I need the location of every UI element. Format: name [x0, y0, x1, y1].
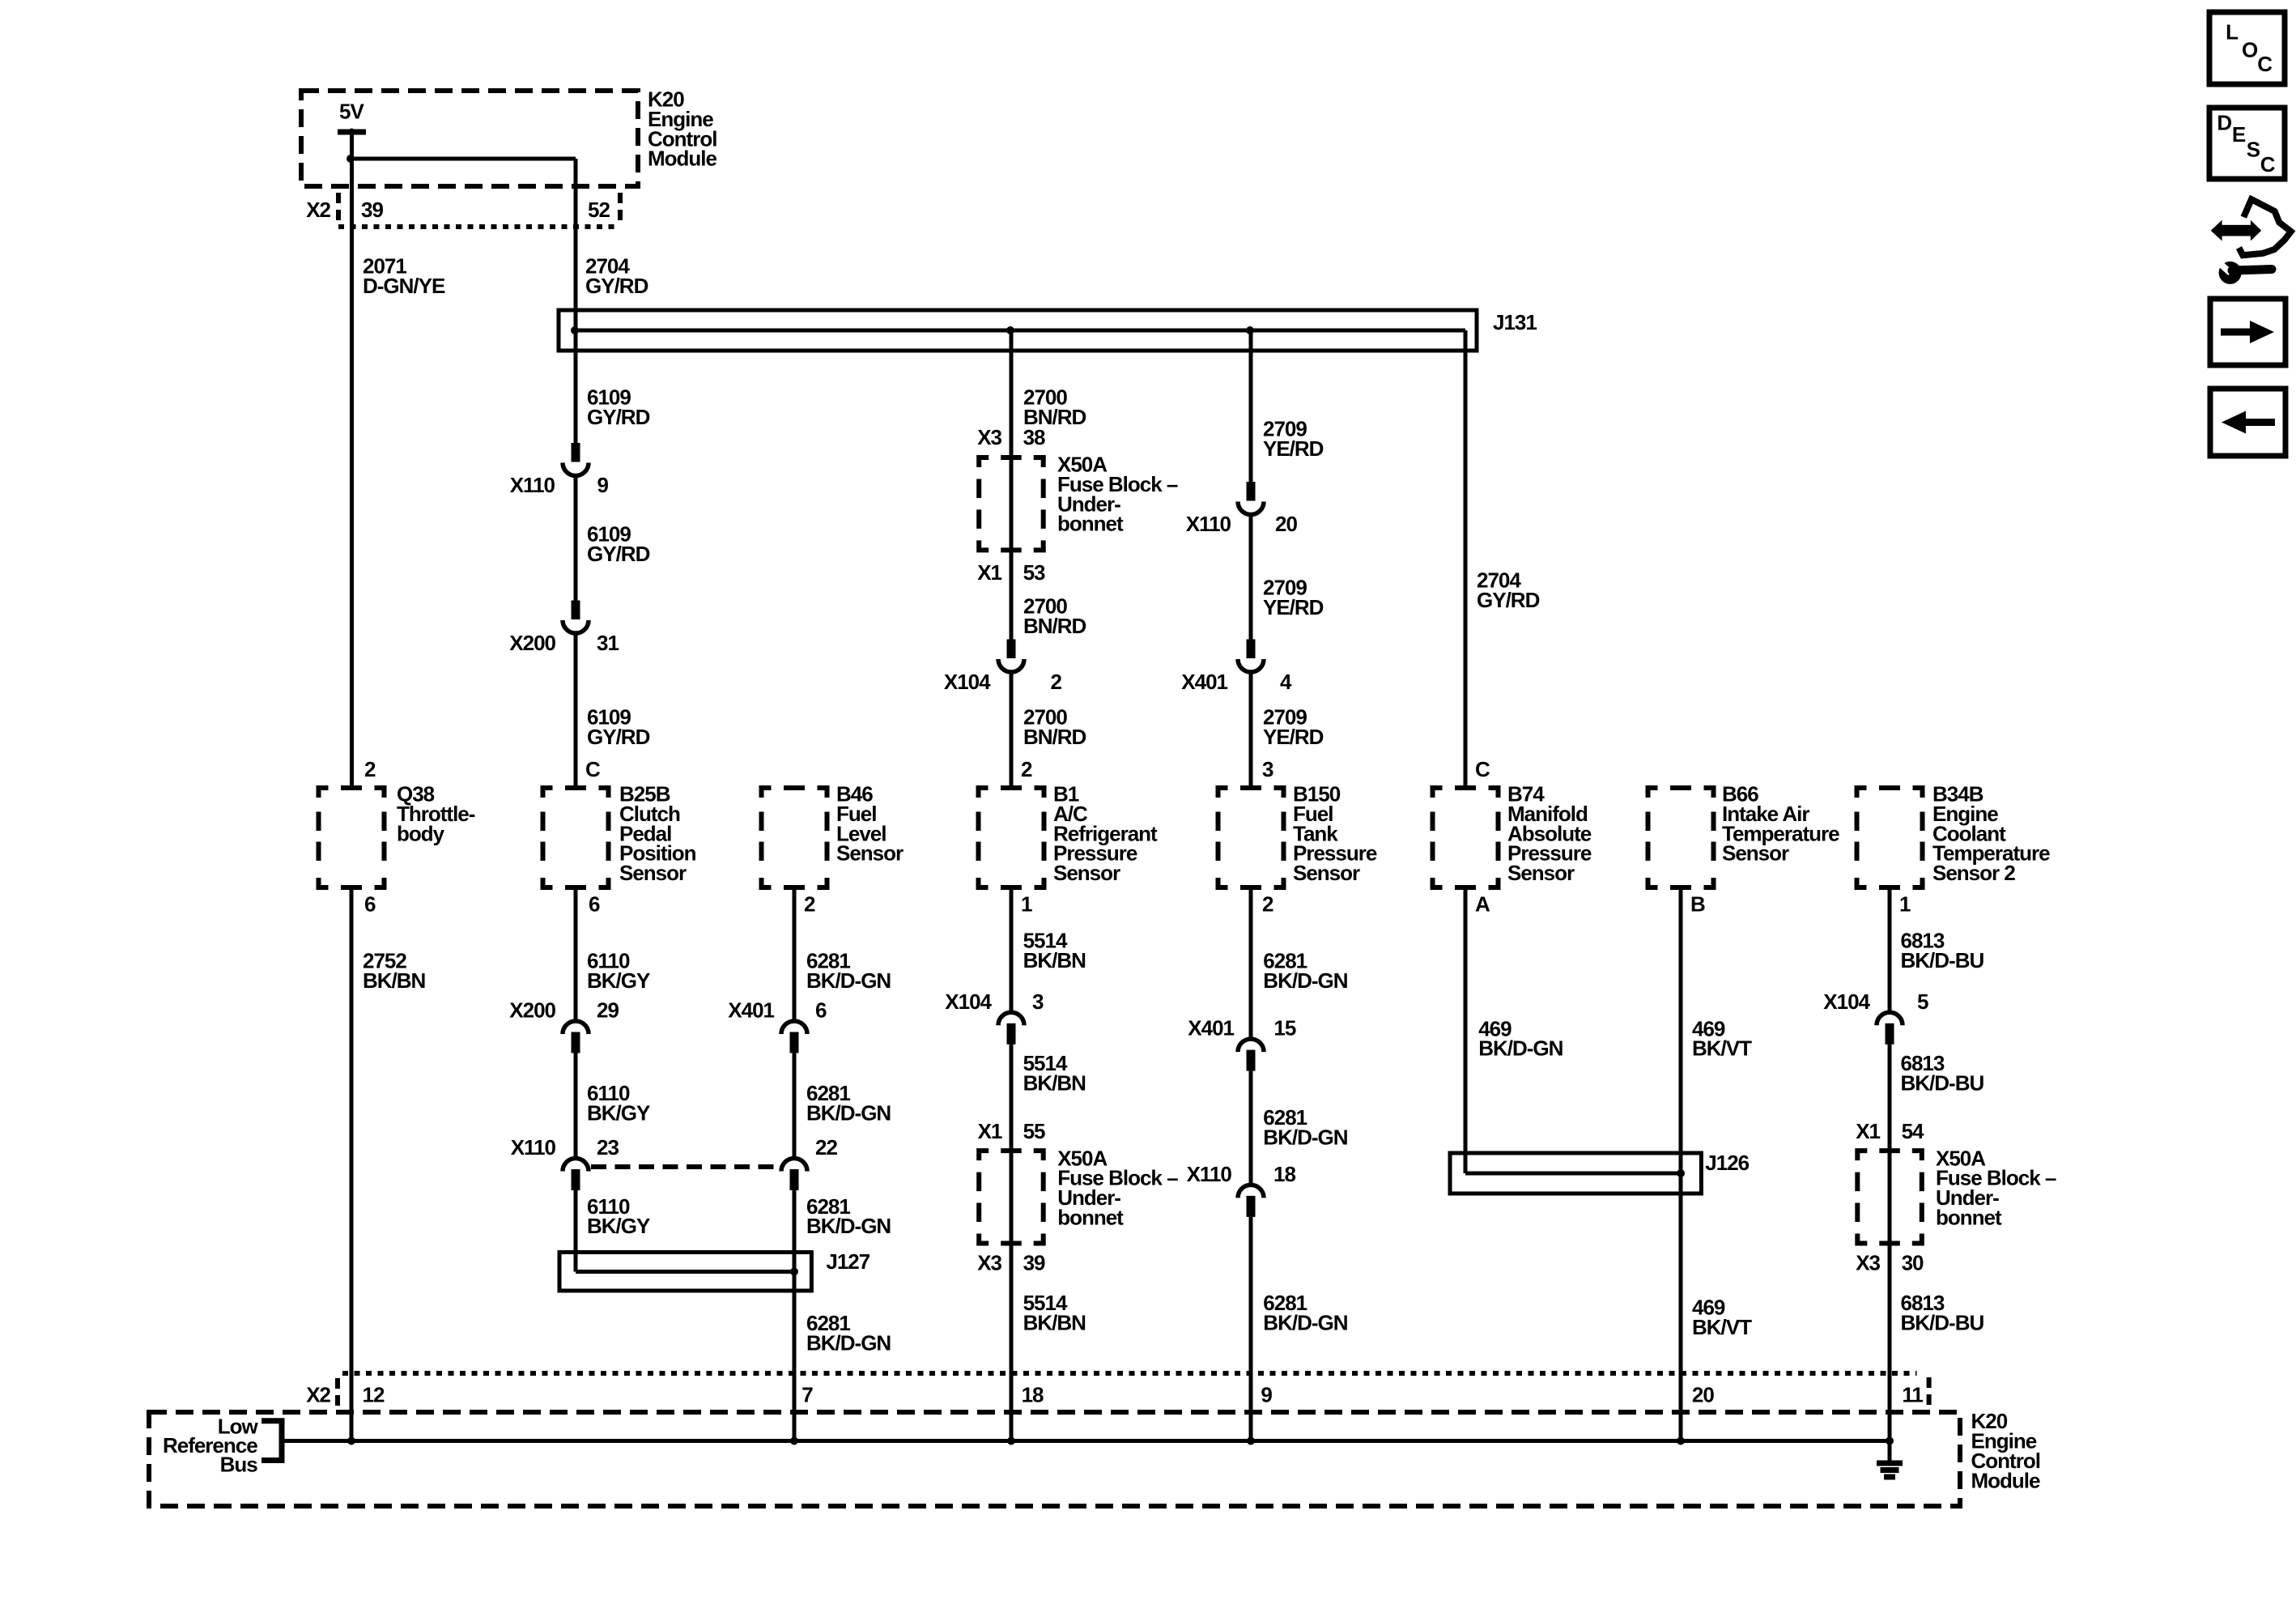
svg-text:X200: X200	[509, 998, 555, 1023]
svg-text:GY/RD: GY/RD	[587, 725, 650, 749]
svg-text:2: 2	[364, 757, 376, 781]
svg-text:BK/D-GN: BK/D-GN	[1263, 968, 1347, 993]
svg-text:BK/D-GN: BK/D-GN	[806, 1331, 891, 1355]
svg-text:5: 5	[1917, 989, 1928, 1014]
svg-text:BK/D-GN: BK/D-GN	[1263, 1126, 1347, 1150]
svg-text:bonnet: bonnet	[1057, 512, 1124, 536]
svg-text:18: 18	[1273, 1162, 1295, 1186]
svg-text:Bus: Bus	[220, 1453, 258, 1477]
svg-text:Sensor: Sensor	[1293, 861, 1360, 885]
svg-text:BK/D-BU: BK/D-BU	[1901, 1070, 1984, 1095]
svg-text:3: 3	[1262, 757, 1273, 781]
svg-text:C: C	[585, 757, 601, 781]
svg-text:39: 39	[1023, 1251, 1045, 1275]
svg-text:39: 39	[361, 198, 383, 222]
svg-text:BK/BN: BK/BN	[1023, 948, 1086, 972]
svg-text:BK/BN: BK/BN	[363, 968, 426, 993]
svg-text:GY/RD: GY/RD	[587, 542, 650, 566]
svg-text:S: S	[2247, 138, 2260, 162]
svg-text:20: 20	[1275, 512, 1297, 536]
svg-text:bonnet: bonnet	[1057, 1206, 1124, 1230]
svg-text:23: 23	[597, 1135, 619, 1160]
svg-text:C: C	[2257, 52, 2273, 76]
svg-text:BK/GY: BK/GY	[587, 1100, 650, 1125]
svg-text:38: 38	[1023, 425, 1045, 449]
svg-text:1: 1	[1899, 892, 1911, 917]
svg-text:2: 2	[804, 892, 815, 917]
svg-text:X104: X104	[944, 670, 991, 694]
svg-text:BK/D-GN: BK/D-GN	[1263, 1310, 1347, 1334]
svg-text:5V: 5V	[339, 100, 364, 124]
svg-text:BK/D-GN: BK/D-GN	[806, 968, 891, 993]
svg-text:X104: X104	[945, 989, 992, 1014]
svg-text:52: 52	[588, 198, 610, 222]
svg-text:20: 20	[1692, 1383, 1714, 1407]
svg-text:BK/GY: BK/GY	[587, 1214, 650, 1238]
svg-text:BK/D-BU: BK/D-BU	[1901, 1310, 1984, 1334]
svg-text:11: 11	[1902, 1383, 1923, 1407]
svg-text:X3: X3	[977, 1251, 1001, 1275]
svg-text:Sensor: Sensor	[619, 861, 687, 885]
svg-text:X401: X401	[728, 998, 774, 1023]
svg-text:18: 18	[1022, 1383, 1044, 1407]
svg-text:body: body	[397, 821, 445, 845]
svg-text:12: 12	[363, 1383, 385, 1407]
svg-text:YE/RD: YE/RD	[1263, 725, 1324, 749]
svg-text:C: C	[2260, 152, 2276, 177]
svg-text:15: 15	[1273, 1016, 1295, 1040]
svg-text:X1: X1	[1856, 1119, 1880, 1143]
svg-text:54: 54	[1902, 1119, 1924, 1143]
svg-text:Module: Module	[1971, 1468, 2041, 1492]
svg-text:9: 9	[597, 473, 609, 497]
svg-text:X401: X401	[1188, 1016, 1234, 1040]
svg-text:BN/RD: BN/RD	[1023, 725, 1086, 749]
svg-text:X110: X110	[511, 1135, 556, 1160]
svg-text:BK/GY: BK/GY	[587, 968, 650, 993]
svg-text:9: 9	[1261, 1383, 1272, 1407]
svg-text:bonnet: bonnet	[1936, 1206, 2002, 1230]
svg-text:GY/RD: GY/RD	[587, 405, 650, 429]
svg-text:Sensor: Sensor	[1722, 841, 1789, 866]
svg-text:BK/VT: BK/VT	[1692, 1036, 1752, 1061]
svg-text:YE/RD: YE/RD	[1263, 436, 1324, 461]
svg-text:1: 1	[1021, 892, 1032, 917]
svg-text:L: L	[2226, 19, 2239, 44]
svg-text:7: 7	[801, 1383, 813, 1407]
svg-text:X2: X2	[306, 1383, 330, 1407]
svg-text:BK/D-GN: BK/D-GN	[1478, 1036, 1563, 1061]
svg-text:Sensor: Sensor	[836, 841, 904, 866]
svg-text:BK/D-BU: BK/D-BU	[1901, 948, 1984, 972]
svg-text:BK/BN: BK/BN	[1023, 1310, 1086, 1334]
svg-text:J126: J126	[1705, 1151, 1749, 1175]
svg-text:X2: X2	[306, 198, 330, 222]
svg-text:E: E	[2232, 122, 2246, 147]
svg-text:BK/VT: BK/VT	[1692, 1315, 1752, 1339]
svg-text:31: 31	[597, 631, 619, 655]
svg-text:YE/RD: YE/RD	[1263, 595, 1324, 619]
svg-text:Sensor 2: Sensor 2	[1932, 861, 2015, 885]
svg-text:2: 2	[1262, 892, 1273, 917]
svg-text:BK/D-GN: BK/D-GN	[806, 1100, 891, 1125]
svg-text:Sensor: Sensor	[1053, 861, 1120, 885]
svg-text:J127: J127	[826, 1249, 870, 1274]
svg-text:X110: X110	[510, 473, 555, 497]
svg-text:BK/BN: BK/BN	[1023, 1070, 1086, 1095]
svg-text:C: C	[1475, 757, 1490, 781]
svg-text:53: 53	[1023, 560, 1045, 585]
svg-text:Sensor: Sensor	[1507, 861, 1575, 885]
svg-text:6: 6	[815, 998, 827, 1023]
svg-text:Module: Module	[648, 147, 717, 171]
svg-text:GY/RD: GY/RD	[585, 274, 648, 298]
svg-text:B: B	[1690, 892, 1705, 917]
svg-text:X200: X200	[509, 631, 555, 655]
svg-text:BK/D-GN: BK/D-GN	[806, 1214, 891, 1238]
svg-text:X110: X110	[1187, 1162, 1232, 1186]
svg-text:22: 22	[815, 1135, 837, 1160]
svg-text:J131: J131	[1493, 310, 1537, 334]
svg-text:D: D	[2217, 111, 2231, 135]
svg-text:3: 3	[1032, 989, 1044, 1014]
svg-text:2: 2	[1051, 670, 1062, 694]
svg-text:30: 30	[1902, 1251, 1924, 1275]
svg-text:29: 29	[597, 998, 619, 1023]
svg-text:X401: X401	[1181, 670, 1227, 694]
svg-text:X110: X110	[1186, 512, 1231, 536]
svg-text:D-GN/YE: D-GN/YE	[363, 274, 445, 298]
svg-text:X104: X104	[1823, 989, 1870, 1014]
svg-text:GY/RD: GY/RD	[1477, 588, 1540, 612]
svg-text:X3: X3	[977, 425, 1001, 449]
svg-text:A: A	[1475, 892, 1490, 917]
svg-text:2: 2	[1021, 757, 1032, 781]
svg-text:55: 55	[1023, 1119, 1045, 1143]
svg-text:X1: X1	[978, 1119, 1002, 1143]
svg-text:BN/RD: BN/RD	[1023, 614, 1086, 638]
svg-text:6: 6	[589, 892, 600, 917]
svg-text:X3: X3	[1856, 1251, 1880, 1275]
svg-text:4: 4	[1280, 670, 1292, 694]
svg-text:O: O	[2242, 37, 2258, 62]
svg-text:6: 6	[364, 892, 376, 917]
svg-text:X1: X1	[977, 560, 1001, 585]
